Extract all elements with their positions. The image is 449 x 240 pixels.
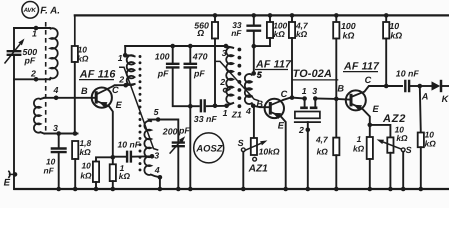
- svg-text:4,7: 4,7: [315, 135, 328, 145]
- junction pin4-ground: [158, 187, 163, 192]
- wire TO-02A pin3 to Q3 base: [315, 99, 351, 100]
- node 4 osc secondary bottom: [158, 175, 163, 180]
- svg-text:TO-02A: TO-02A: [293, 68, 332, 80]
- svg-text:2: 2: [298, 125, 304, 135]
- svg-text:E: E: [373, 104, 380, 114]
- pin label C Q3: [365, 75, 372, 85]
- svg-text:2: 2: [219, 77, 225, 87]
- wire emitter to pot P2: [370, 125, 391, 137]
- svg-text:kΩ: kΩ: [80, 147, 92, 157]
- label AZ2: [382, 113, 406, 125]
- pin label 3 osc: [154, 151, 159, 161]
- svg-text:10 nF: 10 nF: [118, 139, 141, 149]
- svg-text:AF 116: AF 116: [79, 68, 117, 80]
- pin label E Q2: [278, 121, 285, 131]
- svg-text:pF: pF: [157, 68, 169, 78]
- wire top rail drop to 10k resistor R2: [74, 15, 76, 46]
- junction S P2-ground: [401, 187, 406, 192]
- node 4 coupling coil top: [54, 96, 59, 101]
- value label 470 pF: [192, 52, 208, 79]
- label Z1: [231, 110, 242, 120]
- value label 10 kΩ R11: [425, 130, 437, 149]
- label AF117 Q3: [343, 60, 380, 72]
- pin label 2: [30, 69, 36, 79]
- resistor R1 1.8k (base divider lower): [72, 141, 78, 189]
- svg-text:33 nF: 33 nF: [194, 114, 218, 124]
- junction R9-ground: [334, 187, 339, 192]
- svg-text:E: E: [116, 100, 123, 110]
- value label 100 kΩ R8: [341, 21, 356, 41]
- svg-text:kΩ: kΩ: [274, 29, 286, 39]
- junction C6-ground: [188, 187, 193, 192]
- junction R3-ground: [94, 187, 99, 192]
- wire Z1 pin4 to Q2 base: [253, 106, 270, 107]
- wire coil L2 bottom to divider: [45, 133, 78, 135]
- svg-text:100: 100: [341, 21, 356, 31]
- wire Q2 emitter to ground: [281, 117, 286, 189]
- value label 10 kΩ P2: [395, 124, 408, 143]
- junction base node Q3: [334, 97, 339, 102]
- ferrite rod core (dashed): [45, 22, 47, 131]
- pin label 5 Z1: [257, 70, 262, 80]
- svg-text:1: 1: [302, 86, 307, 96]
- node pin3 TO-02A: [313, 96, 318, 101]
- junction R5-33nF node: [213, 104, 218, 109]
- svg-text:kΩ: kΩ: [353, 144, 365, 154]
- svg-text:4: 4: [53, 85, 59, 95]
- value label 200 pF: [162, 126, 191, 137]
- junction R4-ground: [111, 187, 116, 192]
- diode D1: [420, 80, 449, 92]
- value label 100 pF: [155, 52, 170, 79]
- wire pin4 down to pot P1: [253, 106, 255, 138]
- capacitor C8 33nF: [246, 15, 261, 73]
- svg-text:10: 10: [389, 21, 399, 31]
- junction rail-R6: [268, 13, 273, 18]
- pin label A diode: [421, 92, 429, 102]
- svg-text:K: K: [442, 94, 449, 104]
- node AVK control marker: [22, 2, 39, 19]
- wire R7 node to TO-02A pin1: [292, 97, 305, 100]
- label AF117: [255, 58, 292, 70]
- potentiometer P1 10k AZ1: [245, 138, 268, 161]
- ground: [15, 188, 449, 190]
- svg-text:nF: nF: [44, 166, 55, 176]
- svg-text:AVK: AVK: [23, 7, 37, 14]
- junction TO-02A pin2-ground: [306, 187, 311, 192]
- inductor Z1 primary winding: [226, 46, 233, 106]
- junction bus-C6: [188, 44, 193, 49]
- svg-text:AOSZ: AOSZ: [195, 142, 223, 153]
- adjustable core arrow Z1: [216, 61, 259, 100]
- label E terminal: [4, 178, 11, 189]
- node 2 osc primary bottom: [123, 83, 128, 88]
- resistor R10 10k: [383, 15, 389, 86]
- pin label C: [112, 85, 119, 95]
- resistor R11 10k: [418, 86, 424, 189]
- inductor T1 primary winding: [125, 55, 134, 85]
- svg-text:kΩ: kΩ: [396, 133, 408, 143]
- capacitor C4 200pF variable: [170, 136, 186, 189]
- pin label 2 osc: [118, 74, 124, 84]
- value label 33 nF: [231, 20, 242, 38]
- pin label K diode: [442, 94, 449, 104]
- junction collector node Q2: [290, 95, 295, 100]
- svg-text:S: S: [238, 138, 244, 148]
- value label 10 kΩ R10: [389, 21, 402, 41]
- junction P2-ground: [388, 187, 393, 192]
- core T1 (dotted line): [139, 55, 142, 171]
- junction rail-C8: [252, 13, 257, 18]
- svg-text:kΩ: kΩ: [119, 171, 131, 181]
- wire osc pin4 to ground: [159, 177, 161, 189]
- node 3 osc tap: [150, 154, 155, 159]
- value label 10 kΩ emitter: [80, 161, 92, 181]
- value label 10 nF osc: [118, 139, 141, 149]
- svg-text:1: 1: [118, 53, 123, 63]
- junction rail-R8: [334, 13, 339, 18]
- svg-text:AZ2: AZ2: [382, 113, 406, 125]
- wire Q1 emitter vertical: [109, 106, 113, 157]
- svg-text:10 nF: 10 nF: [396, 68, 420, 78]
- wire top supply rail: [75, 14, 449, 16]
- wire tank bottom: [14, 78, 50, 80]
- svg-text:3: 3: [312, 86, 317, 96]
- svg-text:pF: pF: [178, 126, 190, 136]
- svg-text:A: A: [421, 92, 429, 102]
- value label 10 kΩ: [77, 44, 89, 63]
- inductor Z1 secondary winding: [245, 73, 254, 105]
- label F. A.: [40, 5, 60, 16]
- svg-text:2: 2: [118, 74, 124, 84]
- junction rail-R5: [213, 13, 218, 18]
- svg-text:AZ1: AZ1: [248, 164, 269, 175]
- pin label 5 osc: [154, 107, 159, 117]
- value label 100 kΩ: [273, 21, 287, 39]
- node 1 osc primary top: [123, 53, 128, 58]
- pin label 3 TO-02A: [312, 86, 317, 96]
- svg-text:470: 470: [192, 52, 208, 62]
- value label 10 nF C9: [396, 68, 420, 78]
- capacitor C7 33nF: [190, 99, 226, 112]
- transistor Q1 AF116: [92, 86, 113, 108]
- node 1 Z1 primary bottom: [224, 104, 229, 109]
- junction emitter node Q3: [368, 123, 373, 128]
- resistor R4 1k (emitter): [110, 157, 116, 189]
- svg-text:C: C: [281, 89, 288, 99]
- value label 4,7 kΩ: [295, 21, 308, 39]
- wire Q2 collector to R7: [284, 98, 291, 100]
- pin label 2 Z1: [219, 77, 225, 87]
- wire Q3 collector: [365, 86, 403, 92]
- pin label B Q3: [337, 84, 344, 94]
- svg-text:nF: nF: [231, 28, 242, 38]
- svg-text:kΩ: kΩ: [317, 146, 329, 156]
- junction R12-ground: [368, 187, 373, 192]
- pin label 5 under AF117: [257, 70, 262, 80]
- svg-text:E: E: [4, 178, 11, 189]
- node 4 Z1 secondary bottom: [251, 104, 256, 109]
- junction C5-C6 node: [188, 104, 193, 109]
- wire bus y46: [125, 45, 226, 47]
- inductor L2 coupling winding: [34, 98, 44, 134]
- value label 10 nF: [44, 157, 56, 176]
- wire pin5 to C4: [158, 120, 178, 142]
- wire Q3 emitter down: [363, 109, 370, 137]
- svg-text:kΩ: kΩ: [390, 31, 402, 41]
- resistor R2 10k (base divider upper): [72, 46, 78, 134]
- node 3 coupling coil bottom: [56, 131, 61, 136]
- value label 560 Ω: [194, 21, 209, 39]
- junction R11-ground: [419, 187, 424, 192]
- inductor L1 antenna tank coil: [50, 28, 58, 79]
- svg-text:1: 1: [223, 108, 228, 118]
- junction emitter node: [111, 155, 116, 160]
- junction rail-R7: [290, 13, 295, 18]
- resistor R8 100k: [333, 15, 339, 99]
- junction bus-C5: [170, 44, 175, 49]
- resistor R7 4.7k: [289, 15, 295, 97]
- wire Q1 collector to pin 2: [113, 85, 127, 86]
- pin label E: [116, 100, 123, 110]
- value label 1 kΩ: [119, 163, 131, 181]
- wire tank top: [14, 27, 50, 29]
- node 5 Z1 secondary top: [251, 71, 256, 76]
- core Z1 (dotted line): [238, 48, 242, 109]
- junction R1-ground: [73, 187, 78, 192]
- junction C8-R6-pin5 node: [252, 44, 257, 49]
- svg-text:1: 1: [357, 134, 362, 144]
- resistor R6 100k: [254, 15, 273, 46]
- svg-text:B: B: [81, 86, 88, 96]
- svg-text:pF: pF: [24, 56, 36, 66]
- pin label 3: [53, 123, 58, 133]
- svg-text:Ω: Ω: [196, 28, 204, 38]
- junction C9-diode node: [418, 84, 423, 89]
- transistor Q3 AF117 second: [346, 90, 366, 111]
- pin label 4: [53, 85, 59, 95]
- junction collector-R10 node: [384, 84, 389, 89]
- svg-text:B: B: [337, 84, 344, 94]
- node AOSZ oscillator marker: [194, 133, 224, 163]
- node 3 Z1 primary top: [224, 44, 229, 49]
- junction C4-ground: [176, 187, 181, 192]
- svg-text:5: 5: [154, 107, 159, 117]
- pin label 1: [32, 29, 37, 39]
- junction S-ground: [241, 187, 246, 192]
- svg-text:4: 4: [245, 106, 251, 116]
- svg-text:100: 100: [155, 52, 170, 62]
- svg-text:10kΩ: 10kΩ: [259, 147, 280, 157]
- wire base lead from coil L2: [45, 97, 96, 99]
- svg-text:B: B: [256, 99, 263, 109]
- terminal E earth: [8, 171, 17, 178]
- resistor R3 10k (emitter): [93, 162, 99, 190]
- wire antenna left vertical: [13, 28, 15, 189]
- resistor R5 560: [212, 15, 218, 105]
- svg-text:S: S: [406, 145, 412, 155]
- junction C2-ground: [56, 187, 61, 192]
- label TO-02A: [292, 68, 338, 80]
- node pin2 TO-02A: [306, 128, 311, 133]
- value label 1 kΩ R12: [353, 134, 365, 154]
- svg-text:5: 5: [257, 70, 262, 80]
- terminal S P2: [401, 148, 405, 189]
- pin label B: [81, 86, 88, 96]
- svg-text:Z1: Z1: [231, 110, 242, 120]
- resistor R9 4.7k: [333, 99, 339, 189]
- node 5 osc secondary top: [156, 117, 161, 122]
- capacitor C9 10nF: [405, 80, 420, 92]
- capacitor C1 500pF variable: [5, 39, 25, 64]
- svg-text:3: 3: [154, 151, 159, 161]
- potentiometer P2 10k AZ2: [377, 137, 402, 189]
- svg-text:3: 3: [53, 123, 58, 133]
- label AF 116: [79, 68, 117, 80]
- svg-text:pF: pF: [193, 68, 205, 78]
- inductor T1 secondary winding: [144, 120, 159, 178]
- junction rail-R10: [384, 13, 389, 18]
- pin label C Q2: [281, 89, 288, 99]
- capacitor C3 10nF osc: [113, 151, 152, 163]
- node 2 antenna coil bottom: [34, 77, 39, 82]
- value label 33 nF osc: [194, 114, 218, 124]
- pin label E Q3: [373, 104, 380, 114]
- svg-text:kΩ: kΩ: [425, 138, 437, 148]
- svg-text:2: 2: [30, 69, 36, 79]
- pin label 4 Z1: [245, 106, 251, 116]
- junction R2-R1 node: [73, 131, 78, 136]
- svg-text:AF 117: AF 117: [255, 58, 292, 70]
- wire osc pin1 stub: [124, 46, 126, 55]
- label S P1: [238, 138, 244, 148]
- svg-text:kΩ: kΩ: [343, 31, 355, 41]
- svg-text:kΩ: kΩ: [80, 170, 92, 180]
- transistor Q2 AF117: [265, 99, 284, 119]
- svg-text:10: 10: [82, 161, 92, 171]
- svg-text:200: 200: [162, 127, 178, 137]
- pin label 1 osc: [118, 53, 123, 63]
- node pin1 TO-02A: [302, 96, 307, 101]
- pin 2 Z1 tap open terminal: [223, 88, 229, 92]
- pin label 2 TO-02A: [298, 125, 304, 135]
- pin label 1 Z1: [223, 108, 228, 118]
- value label 500 pF: [23, 47, 38, 66]
- value label 10kΩ P1: [259, 147, 280, 157]
- label S P2: [406, 145, 412, 155]
- pin label 3 Z1: [222, 48, 227, 58]
- value label 4,7 kΩ R9: [315, 135, 328, 157]
- capacitor C5 100pF: [166, 46, 190, 106]
- svg-text:kΩ: kΩ: [296, 29, 308, 39]
- wire emitter node to R3: [96, 157, 113, 161]
- svg-text:kΩ: kΩ: [77, 53, 89, 63]
- node 1 antenna coil top: [34, 26, 39, 31]
- terminal S P1: [241, 148, 245, 189]
- label AZ1: [248, 164, 269, 175]
- adjustable core arrow T1: [120, 67, 158, 150]
- svg-text:C: C: [365, 75, 372, 85]
- pin label 4 osc: [154, 165, 160, 175]
- resistor R12 1k: [367, 137, 373, 189]
- value label 1,8 kΩ: [80, 138, 92, 157]
- capacitor C6 470pF: [184, 46, 198, 189]
- pin label B Q2: [256, 99, 263, 109]
- svg-text:1: 1: [32, 29, 37, 39]
- svg-text:AF 117: AF 117: [343, 60, 380, 72]
- capacitor C2 10nF: [51, 134, 67, 190]
- junction Q2 emitter-ground: [283, 187, 288, 192]
- filter FL1 TO-02A body: [294, 99, 321, 190]
- svg-text:E: E: [278, 121, 285, 131]
- svg-text:F. A.: F. A.: [40, 5, 60, 16]
- svg-text:4: 4: [154, 165, 160, 175]
- pin label 1 TO-02A: [302, 86, 307, 96]
